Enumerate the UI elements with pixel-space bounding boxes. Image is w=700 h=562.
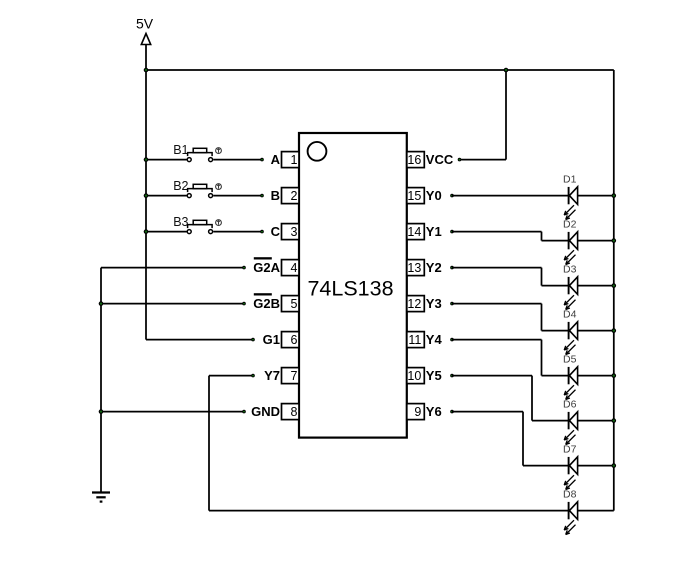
LED D1 <box>563 173 578 219</box>
svg-text:Y5: Y5 <box>426 368 442 383</box>
svg-text:11: 11 <box>408 333 421 347</box>
wire D6 anode to rail <box>578 420 614 422</box>
wire Y2 to D3 <box>452 268 569 286</box>
svg-text:2: 2 <box>290 189 297 203</box>
LED D7 <box>563 443 578 489</box>
svg-text:VCC: VCC <box>426 152 454 167</box>
svg-text:B1: B1 <box>173 143 188 157</box>
svg-text:10: 10 <box>407 369 421 383</box>
wire D7 anode to rail <box>578 465 614 467</box>
wire top 5V rail horizontal <box>146 69 614 71</box>
pin 13 Y2 (right) <box>407 260 454 276</box>
node junction top rail / 5V <box>144 68 149 73</box>
node junction D4 / rail <box>612 328 617 333</box>
wire ground rail vertical <box>100 268 102 493</box>
wire D4 anode to rail <box>578 330 614 332</box>
svg-text:1: 1 <box>290 153 297 167</box>
node junction D3 / rail <box>612 283 617 288</box>
wire D8 anode to rail <box>578 510 614 512</box>
pin 5 G2B (left) <box>242 293 299 311</box>
pin 1 A (left) <box>260 152 299 168</box>
svg-text:D6: D6 <box>563 398 577 410</box>
svg-text:D5: D5 <box>563 353 577 365</box>
svg-text:D8: D8 <box>563 488 577 500</box>
node junction D2 / rail <box>612 238 617 243</box>
svg-text:14: 14 <box>407 225 421 239</box>
node junction D5 / rail <box>612 373 617 378</box>
node junction D1 / rail <box>612 193 617 198</box>
svg-text:Y3: Y3 <box>426 296 442 311</box>
svg-text:3: 3 <box>290 225 297 239</box>
push button B2 <box>146 179 262 198</box>
svg-text:9: 9 <box>414 405 421 419</box>
svg-text:G1: G1 <box>263 332 280 347</box>
svg-text:D4: D4 <box>563 308 577 320</box>
wire D2 anode to rail <box>578 240 614 242</box>
svg-text:16: 16 <box>407 153 421 167</box>
LED D3 <box>563 263 578 309</box>
LED D5 <box>563 353 578 399</box>
wire Y3 to D4 <box>452 304 569 331</box>
LED D4 <box>563 308 578 354</box>
LED D8 <box>563 488 578 534</box>
svg-text:D2: D2 <box>563 218 577 230</box>
pin 11 Y4 (right) <box>407 332 454 348</box>
svg-text:Y2: Y2 <box>426 260 442 275</box>
pin 6 G1 (left) <box>251 332 299 348</box>
svg-text:D3: D3 <box>563 263 577 275</box>
op-amp U1 74LS138 body <box>299 133 407 438</box>
svg-text:D7: D7 <box>563 443 577 455</box>
pin 9 Y6 (right) <box>407 404 454 420</box>
svg-text:6: 6 <box>290 333 297 347</box>
svg-text:4: 4 <box>290 261 297 275</box>
svg-text:8: 8 <box>290 405 297 419</box>
pin 8 GND (left) <box>242 404 299 420</box>
svg-text:G2A: G2A <box>253 260 280 275</box>
pin 3 C (left) <box>260 224 299 240</box>
wire GND pin to ground rail <box>101 411 244 413</box>
node junction B1 / 5V rail <box>144 157 149 162</box>
svg-text:Y1: Y1 <box>426 224 442 239</box>
node junction D7 / rail <box>612 463 617 468</box>
svg-text:13: 13 <box>407 261 421 275</box>
wire G2B to ground rail <box>101 303 244 305</box>
svg-text:B3: B3 <box>173 215 188 229</box>
ground <box>92 493 110 502</box>
node junction VCC drop <box>504 68 509 73</box>
wire D1 anode to rail <box>578 195 614 197</box>
node junction D6 / rail <box>612 418 617 423</box>
svg-text:D1: D1 <box>563 173 577 185</box>
pin 12 Y3 (right) <box>407 296 454 312</box>
svg-text:Y7: Y7 <box>264 368 280 383</box>
svg-text:B: B <box>271 188 280 203</box>
wire Y7 to D8 <box>209 376 569 511</box>
svg-text:12: 12 <box>407 297 421 311</box>
svg-text:C: C <box>271 224 281 239</box>
svg-text:74LS138: 74LS138 <box>307 277 393 301</box>
pin 16 VCC (right) <box>407 152 462 168</box>
svg-text:G2B: G2B <box>253 296 280 311</box>
node junction GND / ground rail <box>99 409 104 414</box>
node junction B2 / 5V rail <box>144 193 149 198</box>
wire VCC to top rail <box>460 70 507 160</box>
svg-text:A: A <box>271 152 281 167</box>
wire right 5V rail vertical <box>613 70 615 511</box>
pin 2 B (left) <box>260 188 299 204</box>
pin 10 Y5 (right) <box>407 368 454 384</box>
svg-text:5: 5 <box>290 297 297 311</box>
svg-text:Y0: Y0 <box>426 188 442 203</box>
power symbol 5V <box>136 16 154 45</box>
node junction G2B / ground rail <box>99 301 104 306</box>
wire Y5 to D6 <box>452 376 569 421</box>
LED D6 <box>563 398 578 444</box>
wire Y1 to D2 <box>452 232 569 241</box>
wire G2A to ground rail <box>101 267 244 269</box>
wire 5V vertical rail <box>145 45 147 340</box>
wire D5 anode to rail <box>578 375 614 377</box>
svg-text:Y4: Y4 <box>426 332 443 347</box>
svg-text:Y6: Y6 <box>426 404 442 419</box>
wire Y0 to D1 <box>452 195 569 197</box>
svg-text:5V: 5V <box>136 16 154 32</box>
wire Y4 to D5 <box>452 340 569 376</box>
svg-text:7: 7 <box>290 369 297 383</box>
pin 14 Y1 (right) <box>407 224 454 240</box>
push button B3 <box>146 215 262 234</box>
svg-text:GND: GND <box>251 404 280 419</box>
pin 4 G2A (left) <box>242 257 299 275</box>
wire G1 to 5V rail <box>146 339 253 341</box>
wire Y6 to D7 <box>452 412 569 466</box>
LED D2 <box>563 218 578 264</box>
push button B1 <box>146 143 262 162</box>
node junction B3 / 5V rail <box>144 229 149 234</box>
pin 15 Y0 (right) <box>407 188 454 204</box>
svg-text:B2: B2 <box>173 179 188 193</box>
wire D3 anode to rail <box>578 285 614 287</box>
pin 7 Y7 (left) <box>251 368 299 384</box>
svg-text:15: 15 <box>407 189 421 203</box>
